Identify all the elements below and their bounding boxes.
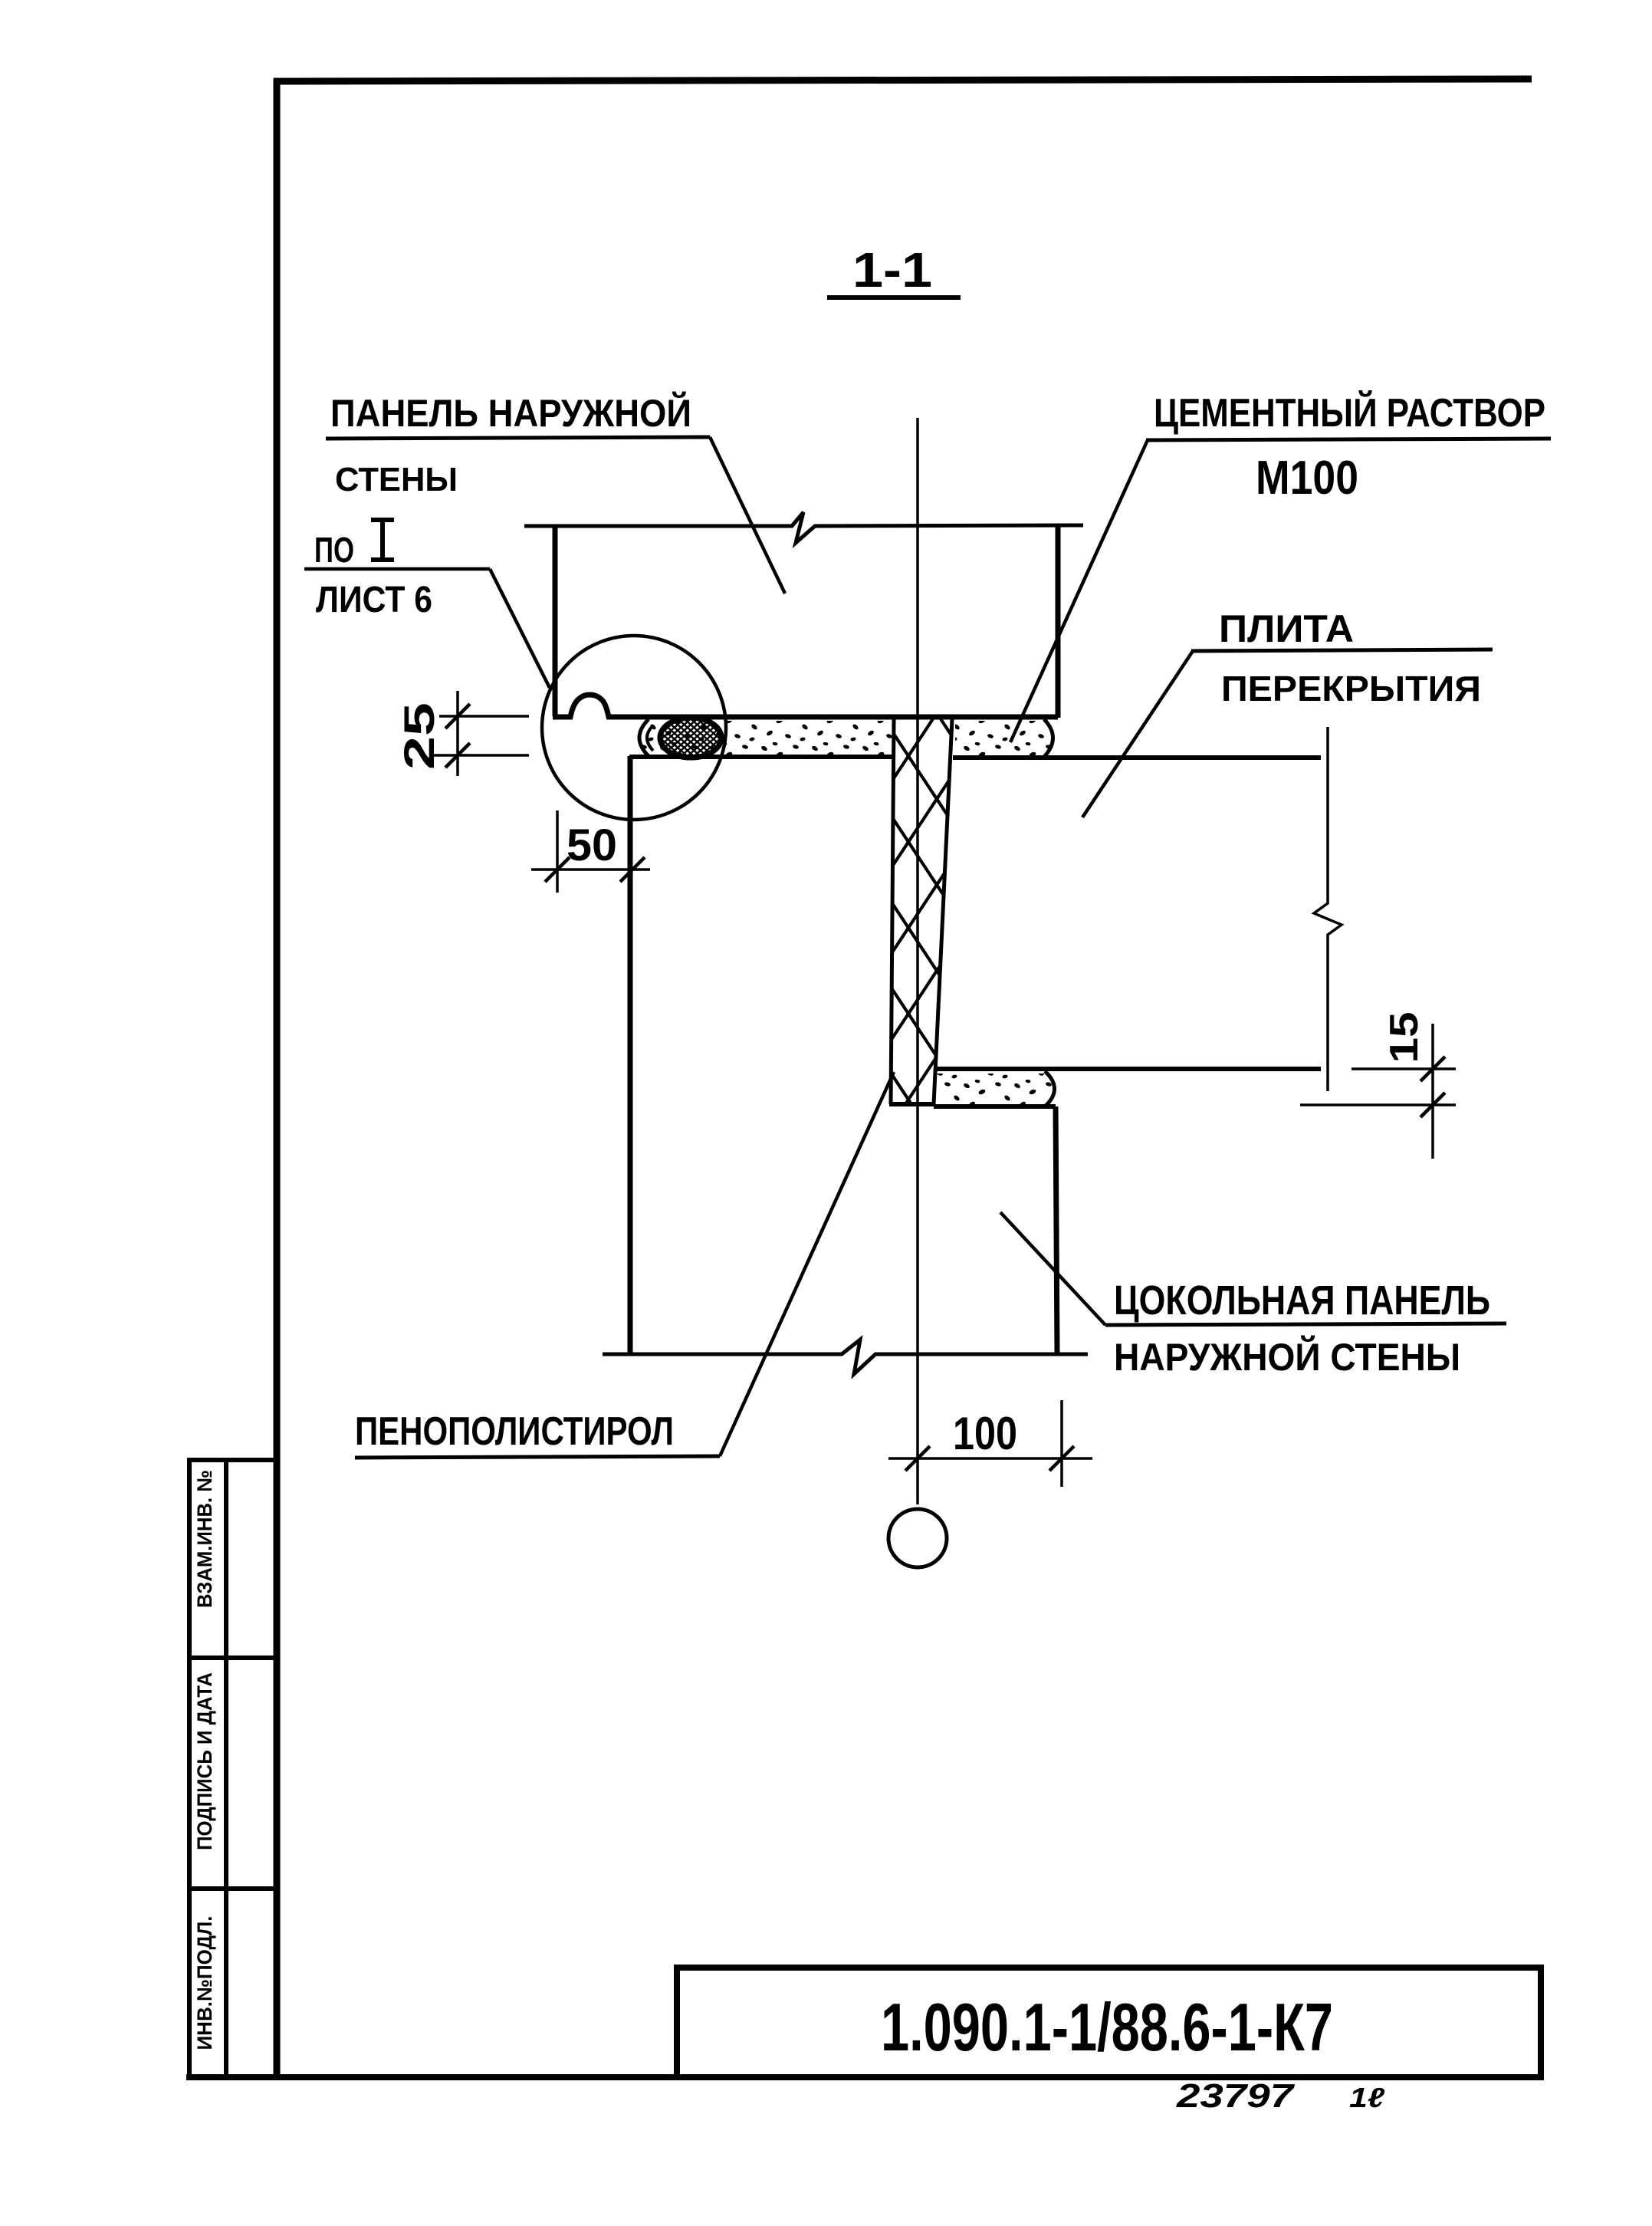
lower (plinth) panel exterior face bbox=[1056, 1106, 1057, 1353]
svg-text:ПАНЕЛЬ НАРУЖНОЙ: ПАНЕЛЬ НАРУЖНОЙ bbox=[330, 391, 691, 435]
dim 50: dimension line bbox=[531, 868, 650, 871]
svg-text:50: 50 bbox=[567, 820, 617, 870]
svg-text:23797: 23797 bbox=[1176, 2077, 1296, 2115]
polystyrene strip right edge bbox=[934, 719, 952, 1104]
svg-text:25: 25 bbox=[395, 702, 443, 770]
dim 15 ticks bbox=[1420, 1057, 1445, 1081]
leader цементный bbox=[1010, 440, 1148, 742]
axis circle bbox=[888, 1509, 947, 1567]
frame left border bbox=[274, 78, 281, 2079]
floor slab bottom line bbox=[936, 1067, 1321, 1071]
mortar left crescent end bbox=[639, 719, 649, 756]
svg-text:1ℓ: 1ℓ bbox=[1349, 2082, 1384, 2113]
axis centerline bbox=[916, 418, 919, 1504]
detail circle (узел) bbox=[542, 636, 726, 820]
mortar joint left fill bbox=[639, 721, 895, 755]
frame bottom border bbox=[186, 2074, 1541, 2080]
svg-text:ИНВ.№ПОДЛ.: ИНВ.№ПОДЛ. bbox=[193, 1916, 216, 2050]
svg-text:100: 100 bbox=[953, 1408, 1017, 1459]
svg-text:ПЕРЕКРЫТИЯ: ПЕРЕКРЫТИЯ bbox=[1221, 669, 1481, 709]
bottom break line with zigzag bbox=[603, 1340, 1088, 1374]
upper wall panel bottom edge with groove bbox=[553, 695, 1058, 717]
floor slab top line bbox=[953, 755, 1321, 760]
lower mortar rounded end bbox=[1045, 1071, 1055, 1106]
svg-text:НАРУЖНОЙ СТЕНЫ: НАРУЖНОЙ СТЕНЫ bbox=[1114, 1335, 1460, 1379]
slab height extension line with break bbox=[1314, 727, 1342, 1091]
mortar joint right fill bbox=[955, 721, 1053, 755]
title block box bbox=[677, 1968, 1541, 2077]
leader плита bbox=[1082, 651, 1193, 817]
sidebar stamp table bbox=[187, 1460, 277, 2077]
sealing rope (gernit) ellipse bbox=[660, 718, 721, 758]
leader по I bbox=[490, 569, 550, 688]
top break line with zigzag bbox=[524, 512, 1083, 543]
leader цокольная bbox=[1000, 1212, 1105, 1325]
svg-text:ЦОКОЛЬНАЯ ПАНЕЛЬ: ЦОКОЛЬНАЯ ПАНЕЛЬ bbox=[1114, 1277, 1490, 1323]
svg-text:ПЕНОПОЛИСТИРОЛ: ПЕНОПОЛИСТИРОЛ bbox=[355, 1409, 674, 1454]
lower mortar bed fill bbox=[937, 1074, 1055, 1105]
leader панель bbox=[710, 437, 785, 593]
dim 25: extension lines bbox=[439, 715, 529, 718]
svg-text:ПО: ПО bbox=[314, 530, 354, 570]
svg-text:ЛИСТ 6: ЛИСТ 6 bbox=[316, 580, 432, 620]
svg-text:СТЕНЫ: СТЕНЫ bbox=[335, 461, 458, 498]
polystyrene joint strip (hatch) bbox=[891, 719, 952, 1104]
svg-text:ЦЕМЕНТНЫЙ РАСТВОР: ЦЕМЕНТНЫЙ РАСТВОР bbox=[1154, 390, 1545, 436]
lower panel shoulder top bbox=[934, 1104, 1056, 1109]
dim 25 ticks bbox=[445, 704, 470, 728]
svg-text:ПЛИТА: ПЛИТА bbox=[1219, 607, 1354, 650]
upper wall panel right edge bbox=[1056, 526, 1061, 718]
svg-text:15: 15 bbox=[1382, 1012, 1427, 1064]
svg-text:1-1: 1-1 bbox=[852, 242, 932, 298]
dim 15: extension lines bbox=[1351, 1067, 1456, 1070]
upper wall panel left edge bbox=[553, 526, 558, 716]
dim 50 extension bbox=[556, 811, 559, 893]
polystyrene strip bottom edge bbox=[889, 1102, 935, 1106]
dim 100 extension bbox=[1060, 1400, 1063, 1487]
mortar right rounded end bbox=[1044, 719, 1053, 757]
frame top border bbox=[274, 79, 1532, 81]
svg-text:ПОДПИСЬ И ДАТА: ПОДПИСЬ И ДАТА bbox=[193, 1672, 216, 1850]
section title underline bbox=[827, 295, 961, 300]
lower panel fin top (mortar underside, interior) bbox=[629, 755, 895, 759]
svg-text:М100: М100 bbox=[1256, 452, 1358, 505]
dim 100 ticks bbox=[905, 1446, 930, 1471]
polystyrene strip left edge bbox=[891, 719, 894, 1104]
svg-text:1.090.1-1/88.6-1-К7: 1.090.1-1/88.6-1-К7 bbox=[881, 1989, 1333, 2065]
dim 100: dimension line bbox=[888, 1457, 1092, 1460]
dim 50 ticks bbox=[545, 857, 570, 882]
svg-text:ВЗАМ.ИНВ. №: ВЗАМ.ИНВ. № bbox=[193, 1470, 216, 1608]
lower (plinth) panel interior face bbox=[628, 756, 633, 1354]
leader пенополистирол bbox=[720, 1072, 894, 1456]
